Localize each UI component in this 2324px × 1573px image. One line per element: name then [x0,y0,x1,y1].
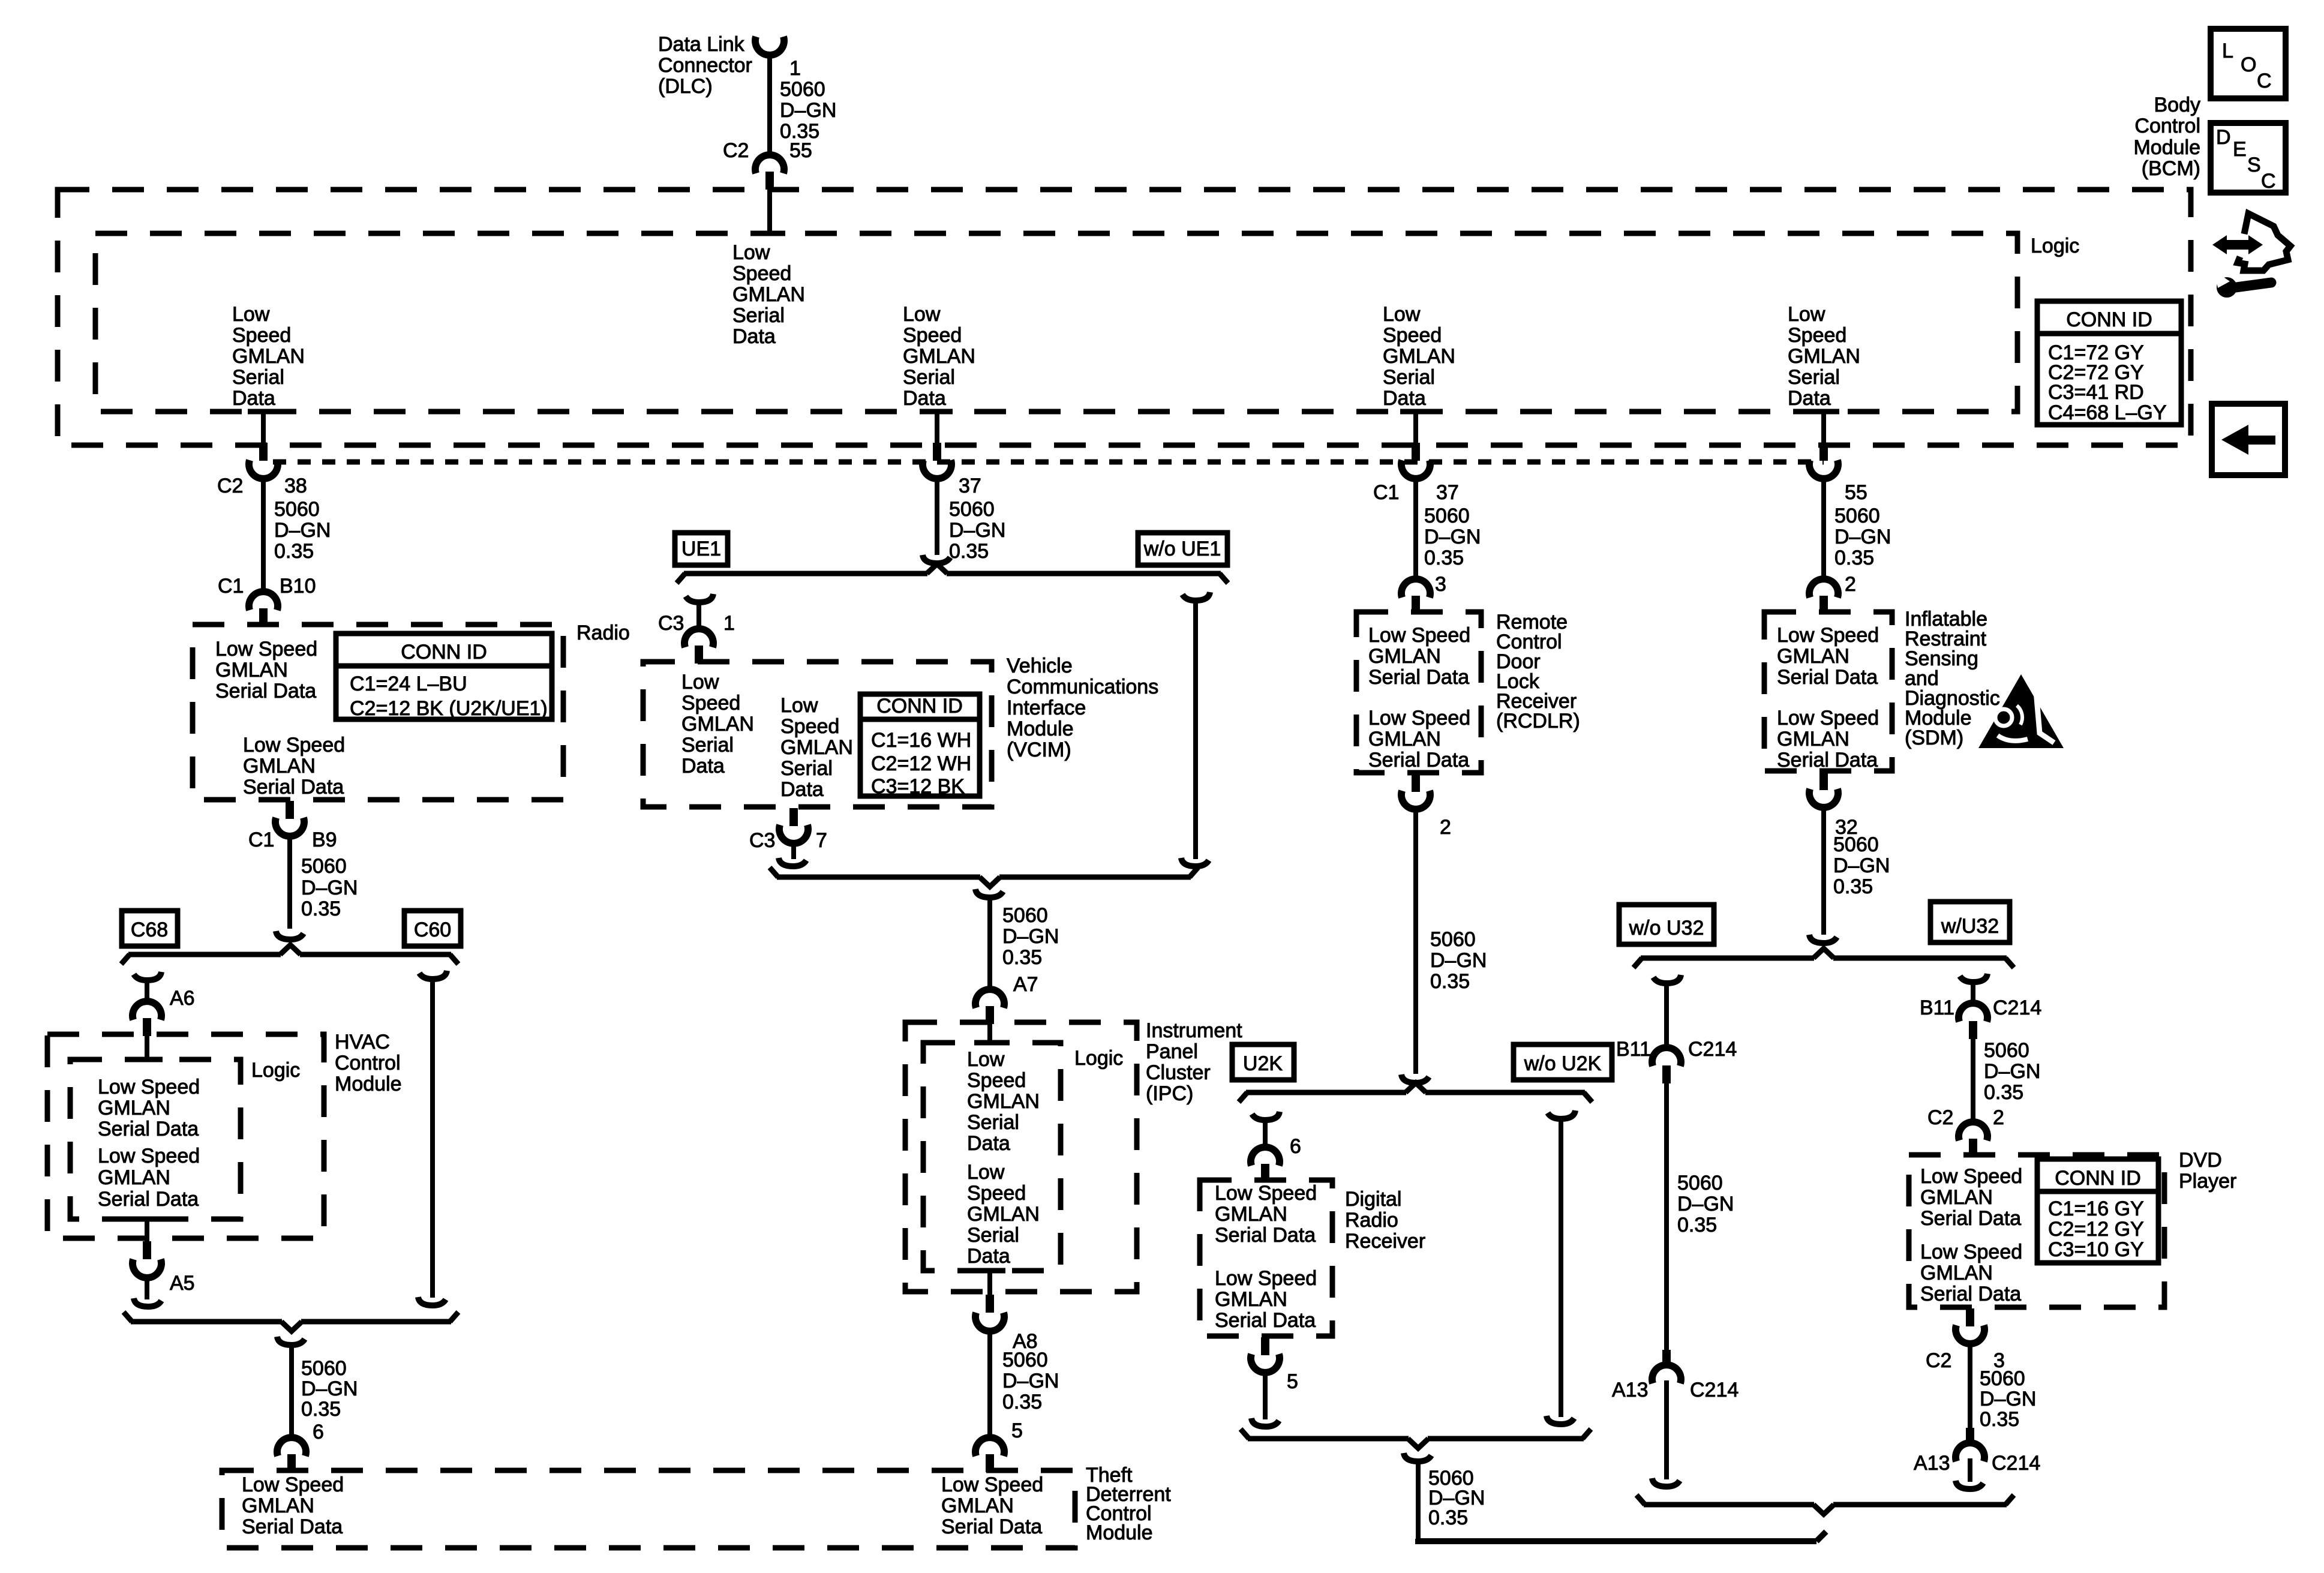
svg-text:D–GN: D–GN [301,1377,358,1400]
svg-text:Speed: Speed [780,715,839,738]
svg-text:5060: 5060 [1002,1349,1048,1371]
svg-text:5060: 5060 [1833,833,1879,856]
svg-text:C214: C214 [1690,1379,1739,1401]
connector C2 terminal 2 DVD (dome) [1959,1122,1987,1140]
svg-text:C1: C1 [1373,481,1399,504]
connector pin A8 (male pin) [986,1295,994,1313]
svg-text:GMLAN: GMLAN [243,755,316,778]
svg-text:A5: A5 [170,1272,195,1295]
connector terminal 37 (cup) [923,460,951,479]
svg-text:GMLAN: GMLAN [967,1090,1040,1113]
svg-text:w/o U32: w/o U32 [1629,917,1704,939]
wire into BCM logic [767,190,772,233]
wire hook VCIM out [779,858,806,866]
wire C1-37 to RCDLR [1413,475,1418,583]
junction tick at IPC logic bottom [974,1268,1005,1274]
wire BCM logic to pin 55 [1821,412,1826,444]
icon SRS warning triangle [1978,674,2064,748]
svg-text:Serial: Serial [232,366,284,389]
wire BCM logic to pin 37 [935,412,939,444]
svg-text:Data: Data [681,755,725,778]
svg-text:1: 1 [789,57,801,80]
svg-text:5060: 5060 [301,1357,347,1380]
svg-text:Serial: Serial [967,1224,1019,1247]
svg-text:Serial Data: Serial Data [1920,1207,2021,1230]
svg-text:5060: 5060 [1980,1367,2025,1390]
svg-text:Low: Low [232,303,270,326]
connector C1 pin 37 (male pin) [1412,443,1420,461]
tag box UE1 [675,533,728,565]
svg-text:GMLAN: GMLAN [903,345,975,368]
junction tick at IPC logic edge [974,1040,1005,1046]
svg-text:Data: Data [780,778,824,801]
svg-text:GMLAN: GMLAN [732,283,805,306]
svg-text:GMLAN: GMLAN [967,1203,1040,1226]
connector terminal 5 (dome) [975,1437,1004,1456]
svg-text:Serial: Serial [903,366,955,389]
wire A8 out of IPC logic [987,1271,992,1296]
svg-text:GMLAN: GMLAN [215,659,288,682]
svg-text:GMLAN: GMLAN [1777,645,1849,668]
connector C1 pin B9 (male pin) [286,801,294,819]
svg-text:(DLC): (DLC) [658,75,713,98]
wire hook w/o U2K bottom [1547,1416,1574,1424]
wire BCM logic to C2-38 [261,412,266,444]
connector terminal 5 below DRR (cup) [1251,1354,1280,1373]
svg-text:GMLAN: GMLAN [1777,728,1849,751]
svg-text:D–GN: D–GN [301,876,358,899]
svg-text:C3=10 GY: C3=10 GY [2048,1238,2144,1261]
svg-text:2: 2 [1993,1106,2004,1129]
HVAC outer dashed box [47,1034,324,1238]
svg-text:S: S [2247,154,2261,176]
svg-text:(IPC): (IPC) [1146,1082,1193,1105]
svg-text:GMLAN: GMLAN [242,1494,314,1517]
svg-text:D–GN: D–GN [1424,526,1481,548]
svg-text:Speed: Speed [903,324,962,347]
svg-text:Control: Control [2134,115,2200,137]
connector terminal A6 (dome) [133,1001,161,1020]
connector pin 2 below RCDLR (male pin) [1412,774,1420,792]
svg-text:Low: Low [967,1048,1005,1071]
connector C3 pin 7 (male pin) [789,808,798,826]
svg-text:D–GN: D–GN [1002,1370,1059,1392]
svg-text:C214: C214 [1992,1452,2040,1475]
svg-text:B11: B11 [1616,1038,1651,1061]
svg-text:Low Speed: Low Speed [215,638,317,661]
junction tick wire 2 at Logic edge [921,409,953,415]
connector pin 55 (male pin) [1819,443,1828,461]
svg-text:Speed: Speed [681,692,740,715]
svg-text:C: C [2261,170,2276,193]
svg-text:0.35: 0.35 [301,1398,341,1421]
svg-text:5060: 5060 [274,498,320,521]
svg-text:Speed: Speed [1383,324,1442,347]
svg-text:Connector: Connector [658,54,752,77]
svg-text:C1=24 L–BU: C1=24 L–BU [350,673,467,695]
RCDLR dashed box [1356,612,1481,773]
svg-text:Serial: Serial [967,1111,1019,1134]
svg-text:6: 6 [1290,1135,1301,1158]
wire pin 55 to SDM [1821,475,1826,583]
tag box w/o UE1 [1138,533,1227,565]
merge brace below VCIM [777,875,980,880]
wire hook DRR bottom [1251,1418,1279,1427]
svg-text:Speed: Speed [967,1069,1026,1092]
svg-text:Serial Data: Serial Data [1920,1283,2021,1305]
svg-text:Serial Data: Serial Data [98,1188,199,1211]
svg-text:5060: 5060 [780,78,825,101]
svg-text:GMLAN: GMLAN [1215,1203,1287,1226]
svg-text:Low: Low [681,671,719,694]
svg-text:Low Speed: Low Speed [1368,624,1470,647]
svg-text:3: 3 [1435,573,1446,596]
wire BCM logic to C1-37 [1413,412,1418,444]
svg-text:Data: Data [1788,387,1831,410]
svg-text:Low Speed: Low Speed [1920,1241,2022,1263]
Digital Radio Receiver dashed box [1200,1180,1332,1336]
svg-text:CONN ID: CONN ID [401,641,487,664]
connector B11/C214 terminal (dome, right) [1959,1003,1987,1022]
svg-text:B10: B10 [280,575,316,598]
junction brace below HVAC [131,1319,282,1325]
Radio CONN ID table [336,634,552,719]
svg-text:C60: C60 [414,918,451,941]
svg-text:Low Speed: Low Speed [98,1076,200,1098]
wire A7 into IPC logic [987,1024,992,1043]
svg-text:Serial Data: Serial Data [243,776,344,798]
connector pin 6 (male pin) [287,1454,296,1472]
svg-text:Instrument: Instrument [1146,1019,1242,1042]
wire hook C60 branch [419,971,447,979]
wire RCDLR to U2K brace [1413,806,1418,1074]
svg-text:D–GN: D–GN [1833,854,1890,877]
svg-text:Data: Data [1383,387,1426,410]
wire C60 branch bypass [430,979,435,1298]
svg-text:A7: A7 [1013,973,1038,996]
svg-text:Low Speed: Low Speed [1777,707,1879,730]
svg-text:UE1: UE1 [681,538,721,560]
icon DESC box [2211,123,2286,193]
svg-text:B9: B9 [312,828,337,851]
connector terminal 55 (cup) [1809,460,1838,479]
icon LOC box [2211,29,2286,98]
svg-text:CONN ID: CONN ID [2055,1167,2141,1190]
svg-text:GMLAN: GMLAN [681,713,754,736]
svg-text:C214: C214 [1688,1038,1737,1061]
dotted option line inside BCM [273,460,1824,465]
svg-text:C68: C68 [131,918,168,941]
BCM inner Logic dashed box [95,233,2017,412]
junction tick at HVAC logic bottom [131,1217,163,1222]
DLC terminal pin 1 (cup) [755,37,784,55]
svg-text:5: 5 [1011,1419,1023,1442]
wire A5 out of HVAC logic [145,1219,149,1242]
wire hook C60 branch bottom [418,1297,446,1305]
svg-text:0.35: 0.35 [274,540,314,563]
tag box C60 [404,911,461,946]
svg-text:5: 5 [1287,1370,1298,1393]
svg-text:Data: Data [232,387,275,410]
svg-text:Serial: Serial [681,734,734,757]
svg-text:C3=12 BK: C3=12 BK [871,775,965,798]
svg-text:D–GN: D–GN [1430,949,1487,972]
wire U2K branch to DRR pin 6 [1263,1120,1268,1151]
icon comm arrows with wrench [2212,214,2290,298]
svg-text:D–GN: D–GN [949,519,1005,542]
svg-text:U2K: U2K [1243,1052,1283,1075]
svg-text:37: 37 [959,475,981,497]
svg-text:Speed: Speed [232,324,291,347]
svg-text:Body: Body [2154,94,2201,116]
connector C3 terminal 7 (cup) [779,825,808,843]
svg-text:Speed: Speed [1788,324,1846,347]
svg-text:Serial Data: Serial Data [941,1515,1042,1538]
svg-text:5060: 5060 [301,855,347,878]
svg-text:w/o U2K: w/o U2K [1524,1052,1602,1075]
wire hook below HVAC brace [277,1337,305,1345]
wire hook below DRR brace [1404,1453,1431,1461]
wire 37 to UE1 option brace [935,475,939,555]
junction tick wire 1 at Logic edge [248,409,279,415]
svg-text:Data: Data [732,325,776,348]
svg-text:Interface: Interface [1007,697,1086,719]
connector C1 pin B10 (male pin) [259,608,268,626]
svg-text:0.35: 0.35 [1984,1081,2023,1104]
svg-text:(BCM): (BCM) [2142,157,2200,180]
wire hook below VCIM brace [975,889,1003,897]
wire hook U2K branch [1252,1112,1280,1120]
svg-text:Data: Data [967,1132,1010,1155]
svg-text:GMLAN: GMLAN [98,1097,170,1119]
wire hook DVD lower [1956,1481,1983,1489]
connector pin 6 DRR (male pin) [1261,1164,1269,1182]
svg-text:5060: 5060 [1677,1172,1723,1194]
option brace U2K / w-o U2K [1246,1090,1406,1095]
svg-text:0.35: 0.35 [1677,1214,1717,1236]
wire SDM pin 32 down [1821,804,1826,935]
svg-text:Low: Low [1383,303,1421,326]
svg-text:D–GN: D–GN [780,99,836,122]
svg-text:Serial Data: Serial Data [242,1515,343,1538]
svg-text:Serial Data: Serial Data [215,680,316,703]
svg-text:GMLAN: GMLAN [232,345,305,368]
svg-text:C1: C1 [218,575,244,598]
svg-text:Module: Module [1007,718,1074,740]
svg-text:C2: C2 [217,475,243,497]
wire DVD branch lower [1968,1458,1972,1482]
wire w/o U32 branch lower [1664,1380,1669,1479]
svg-text:Serial: Serial [732,304,785,327]
connector terminal 3 (dome) [1401,579,1430,598]
svg-text:GMLAN: GMLAN [98,1166,170,1189]
svg-text:GMLAN: GMLAN [941,1494,1014,1517]
wire hook w/o UE1 bottom [1181,858,1209,866]
Theft Deterrent dashed box [222,1470,1075,1548]
wire DRR merge down [1416,1464,1421,1541]
svg-text:C3: C3 [658,612,684,635]
svg-text:C2=12 WH: C2=12 WH [871,752,971,775]
svg-text:Control: Control [335,1052,401,1074]
wire C2-38 to radio C1-B10 [261,476,266,594]
connector C2 pin 2 DVD (male pin) [1969,1139,1977,1157]
svg-text:HVAC: HVAC [335,1031,390,1053]
wire VCIM C3-7 down [791,840,796,859]
svg-text:Module: Module [335,1073,402,1095]
svg-text:Low Speed: Low Speed [1215,1267,1317,1290]
wire DRR pin 5 down [1263,1370,1268,1419]
VCIM CONN ID table [860,694,980,796]
svg-text:C4=68 L–GY: C4=68 L–GY [2048,401,2167,424]
svg-text:Data Link: Data Link [658,33,745,56]
connector pin 32 below SDM (male pin) [1819,772,1828,790]
svg-text:D: D [2216,126,2231,149]
tag box U2K [1232,1044,1294,1080]
svg-text:w/o UE1: w/o UE1 [1143,538,1221,560]
svg-text:2: 2 [1440,816,1451,839]
svg-text:C1: C1 [248,828,274,851]
svg-text:C214: C214 [1993,996,2041,1019]
svg-text:Communications: Communications [1007,676,1158,698]
svg-text:Cluster: Cluster [1146,1061,1211,1084]
svg-text:2: 2 [1845,573,1856,596]
svg-text:0.35: 0.35 [1430,970,1470,993]
connector B11/C214 pin (male pin, left) [1662,1065,1671,1083]
svg-text:5060: 5060 [1430,928,1476,951]
svg-text:Logic: Logic [1074,1047,1123,1070]
tag box w/o U32 [1619,905,1714,944]
connector C2 terminal (dome) [755,155,784,173]
connector pin A7 (male pin) [986,1006,994,1024]
wire hook up to A13 merge brace [1816,1532,1826,1541]
junction tick at BCM logic edge [754,231,785,236]
svg-text:5060: 5060 [1834,505,1880,527]
connector pin 37 (male pin) [933,443,941,461]
svg-text:Serial: Serial [780,757,833,780]
wire w/o U2K bypass [1559,1119,1563,1417]
svg-text:5060: 5060 [949,498,995,521]
svg-text:Serial Data: Serial Data [1368,749,1469,772]
svg-text:Radio: Radio [577,622,630,644]
Radio dashed box [193,625,563,800]
connector B11/C214 terminal (dome, left) [1652,1047,1681,1066]
svg-text:Low: Low [903,303,941,326]
connector pin 2 SDM (male pin) [1819,596,1828,614]
VCIM dashed box [643,662,992,807]
svg-text:Logic: Logic [251,1059,300,1082]
svg-text:0.35: 0.35 [1002,946,1042,969]
svg-text:0.35: 0.35 [301,897,341,920]
svg-text:C2: C2 [1927,1106,1953,1129]
svg-text:D–GN: D–GN [274,519,331,542]
DVD Player dashed box [1909,1155,2164,1307]
svg-text:55: 55 [1845,481,1867,504]
connector terminal 6 (dome) [277,1437,306,1456]
svg-text:B11: B11 [1920,996,1954,1019]
svg-text:Serial: Serial [1788,366,1840,389]
svg-text:5060: 5060 [1002,904,1048,927]
svg-text:7: 7 [816,829,827,852]
wire hook UE1 branch [686,594,713,602]
connector terminal A5 (cup) [133,1259,161,1278]
svg-text:w/U32: w/U32 [1941,915,1999,938]
wire w/U32 branch to DVD [1971,1039,1975,1125]
svg-text:O: O [2241,53,2256,76]
svg-text:Serial Data: Serial Data [1215,1309,1316,1332]
svg-text:Low Speed: Low Speed [98,1145,200,1167]
svg-text:Module: Module [1086,1521,1153,1544]
svg-text:Digital: Digital [1345,1188,1401,1211]
svg-text:A6: A6 [170,987,195,1010]
wire w/o U32 branch middle [1664,1083,1669,1350]
svg-text:0.35: 0.35 [1424,547,1464,569]
svg-text:D–GN: D–GN [1677,1193,1734,1215]
connector C1 terminal 37 (cup) [1401,460,1430,479]
svg-text:Logic: Logic [2031,235,2079,257]
wire w/U32 branch upper [1971,982,1975,1005]
svg-text:Low Speed: Low Speed [243,734,345,757]
connector A13/C214 pin (male pin, left) [1662,1350,1671,1368]
wire A5 to junction [145,1275,149,1299]
connector pin 5 (male pin) [986,1454,994,1472]
icon back arrow box [2212,404,2285,475]
svg-text:D–GN: D–GN [1834,526,1891,548]
connector C2 pin 3 below DVD (male pin) [1966,1308,1974,1326]
wire to IPC A7 [987,899,992,993]
svg-text:(VCIM): (VCIM) [1007,739,1071,761]
svg-text:Low: Low [780,694,818,717]
svg-text:37: 37 [1436,481,1459,504]
wire A8 to theft deterrent [987,1328,992,1440]
wire hook A5 bottom [134,1298,161,1307]
connector pin 5 below DRR (male pin) [1261,1337,1269,1355]
option brace w/o U32 / w U32 [1641,956,1814,961]
svg-text:GMLAN: GMLAN [1383,345,1455,368]
svg-text:55: 55 [789,139,812,162]
connector C3 terminal 1 (dome) [684,629,713,647]
svg-text:Serial Data: Serial Data [1777,666,1878,689]
svg-text:Data: Data [967,1245,1010,1268]
connector C2 pin 38 (male pin) [259,443,268,461]
wire hook at UE1 brace [923,555,950,563]
wire hook at U2K brace [1401,1074,1429,1083]
tag box w/U32 [1930,902,2010,942]
svg-text:Serial Data: Serial Data [1368,666,1469,689]
connector C2 terminal 38 (cup) [249,460,278,479]
svg-text:Low Speed: Low Speed [941,1473,1043,1496]
connector pin A6 (male pin) [143,1018,151,1036]
svg-text:E: E [2233,138,2247,161]
tag box C68 [122,911,178,946]
svg-text:L: L [2222,40,2233,62]
junction tick at HVAC logic edge [131,1057,163,1062]
svg-text:C3: C3 [749,829,775,852]
svg-text:Module: Module [2133,136,2200,159]
svg-text:Serial Data: Serial Data [98,1118,199,1140]
wire hook w/o U32 branch [1653,975,1681,983]
junction tick wire 4 at Logic edge [1808,409,1839,415]
svg-text:Low Speed: Low Speed [1920,1165,2022,1188]
connector C1 terminal B9 (cup) [275,818,304,836]
svg-text:Low Speed: Low Speed [1368,707,1470,730]
svg-text:Low Speed: Low Speed [1777,624,1879,647]
wire UE1 branch to VCIM C3-1 [696,602,701,632]
svg-text:GMLAN: GMLAN [1788,345,1860,368]
svg-text:5060: 5060 [1984,1039,2029,1062]
wire hook w/U32 branch [1960,974,1987,982]
svg-text:GMLAN: GMLAN [1920,1262,1993,1284]
connector terminal A8 (cup) [975,1313,1004,1331]
